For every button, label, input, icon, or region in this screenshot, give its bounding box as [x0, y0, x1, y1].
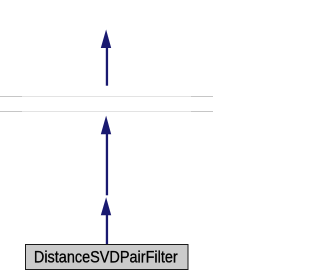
- arrow 3 (bottom) head: [101, 197, 111, 215]
- arrow 2 (middle) head: [101, 116, 111, 135]
- faint clipped parent-box right edge dashes: [191, 96, 213, 98]
- arrow 1 (top) shaft: [106, 48, 108, 86]
- faint clipped parent-box top border: [0, 96, 213, 98]
- svg-text:DistanceSVDPairFilter: DistanceSVDPairFilter: [34, 249, 178, 267]
- faint clipped parent-box bottom border: [0, 111, 213, 113]
- arrow 1 (top) head: [101, 30, 111, 49]
- class box: [26, 245, 189, 270]
- arrow 3 (bottom) shaft: [106, 215, 108, 245]
- arrow 2 (middle) shaft: [106, 134, 108, 196]
- faint clipped parent-box left edge dashes: [0, 96, 22, 98]
